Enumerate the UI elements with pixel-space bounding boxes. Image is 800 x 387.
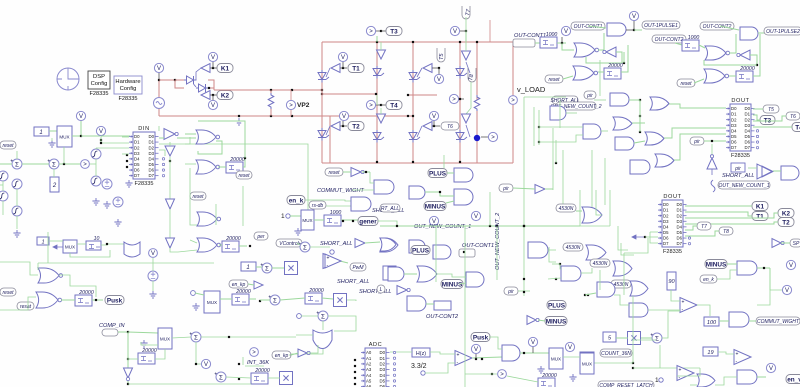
thyristor T2 bbox=[318, 128, 329, 141]
wire bbox=[753, 116, 786, 121]
wire bbox=[757, 267, 770, 269]
monostable 20000 L bbox=[138, 348, 157, 364]
MUX M2 bbox=[549, 348, 563, 369]
wire bbox=[634, 29, 642, 31]
wire bbox=[433, 121, 435, 126]
wire bbox=[210, 94, 217, 96]
svg-text:PwM: PwM bbox=[352, 265, 364, 271]
comparator K4 bbox=[677, 366, 694, 381]
wire bbox=[128, 383, 160, 385]
tag SHORT_ALL J bbox=[380, 204, 400, 212]
wire bbox=[633, 367, 700, 369]
net NOR H5 in bbox=[0, 262, 38, 275]
wire bbox=[727, 263, 737, 265]
wire bbox=[753, 126, 792, 128]
AND gate N3 bbox=[466, 272, 484, 287]
node bbox=[100, 139, 102, 141]
label frame T5 bbox=[437, 48, 445, 62]
svg-text:OUT-CONT2: OUT-CONT2 bbox=[655, 37, 684, 43]
left edge wire1 bbox=[0, 163, 12, 165]
wire bbox=[465, 42, 467, 51]
wire bbox=[753, 34, 760, 76]
wire bbox=[538, 320, 545, 321]
voltage probe T2 bbox=[339, 111, 348, 120]
node bbox=[463, 251, 465, 253]
svg-text:F28335: F28335 bbox=[663, 249, 682, 255]
svg-text:Σ: Σ bbox=[655, 335, 659, 342]
const circle I bbox=[286, 214, 290, 218]
wire bbox=[226, 377, 251, 378]
OR gate K1 bbox=[613, 261, 632, 276]
node bbox=[711, 140, 713, 142]
long wire M4 out bbox=[201, 336, 296, 338]
node bbox=[127, 383, 129, 385]
multiplier M2 bbox=[334, 294, 347, 307]
thyristor T4 bbox=[373, 130, 384, 143]
wire bbox=[159, 150, 165, 156]
node bbox=[352, 220, 354, 222]
clock block bbox=[57, 68, 79, 90]
svg-text:MINUS: MINUS bbox=[706, 261, 727, 268]
svg-text:+: + bbox=[682, 300, 685, 306]
ground G3 bbox=[103, 201, 110, 208]
svg-text:3.3/2: 3.3/2 bbox=[411, 363, 427, 370]
wire bbox=[675, 43, 682, 45]
node bbox=[212, 67, 214, 69]
wire bbox=[664, 128, 726, 138]
wire bbox=[158, 73, 160, 80]
wire bbox=[51, 138, 53, 141]
node bbox=[375, 93, 377, 95]
wire bbox=[552, 263, 560, 265]
MUX L bbox=[158, 328, 172, 349]
voltage probe shaper1 bbox=[561, 26, 570, 35]
svg-text:SHORT_ALL: SHORT_ALL bbox=[722, 173, 755, 179]
wire bbox=[717, 270, 737, 279]
svg-text:D3: D3 bbox=[745, 123, 751, 128]
wire bbox=[633, 339, 656, 341]
wire bbox=[289, 354, 291, 356]
wire bbox=[559, 100, 561, 128]
wire bbox=[340, 125, 347, 127]
node bbox=[763, 267, 765, 269]
NOR gate H3 bbox=[197, 212, 221, 226]
node bbox=[259, 300, 261, 302]
net label INT_36K tick bbox=[243, 357, 264, 366]
svg-text:20000: 20000 bbox=[229, 157, 245, 163]
node bbox=[412, 41, 414, 43]
svg-text:1: 1 bbox=[246, 265, 249, 271]
NOR gate shaper2a bbox=[705, 46, 730, 60]
node bbox=[354, 383, 356, 385]
node bbox=[354, 359, 356, 361]
node bbox=[380, 30, 382, 32]
node bbox=[80, 135, 82, 137]
wire bbox=[685, 231, 719, 236]
chip ADC bbox=[361, 342, 390, 387]
tag OUT-1PULSE1 bbox=[642, 21, 680, 29]
node bbox=[476, 137, 478, 139]
svg-text:A5: A5 bbox=[366, 379, 372, 384]
wire bbox=[195, 293, 204, 295]
node bbox=[433, 125, 435, 127]
svg-text:>: > bbox=[252, 350, 256, 356]
svg-text:Config: Config bbox=[91, 81, 108, 87]
wire bbox=[489, 192, 491, 226]
node bbox=[459, 41, 461, 43]
svg-text:Σ: Σ bbox=[52, 161, 56, 168]
wire bbox=[260, 299, 270, 301]
wire E0 to ANDb bbox=[539, 126, 583, 128]
voltage probe K3 bbox=[766, 363, 775, 372]
node bbox=[396, 225, 398, 227]
wire DOUT2 D5 D7 bbox=[650, 232, 658, 243]
svg-text:K2: K2 bbox=[221, 92, 230, 99]
svg-text:4530N: 4530N bbox=[566, 245, 581, 251]
svg-text:V: V bbox=[632, 14, 636, 20]
svg-text:D5: D5 bbox=[134, 162, 140, 167]
rect J OUT-CONT1 bbox=[459, 249, 475, 257]
wire bbox=[435, 226, 437, 282]
wire bbox=[90, 163, 96, 165]
voltage probe J1 bbox=[471, 211, 480, 220]
inverter SP bbox=[772, 239, 784, 248]
svg-text:reset: reset bbox=[2, 290, 14, 296]
probe T4 bbox=[366, 100, 375, 109]
node bbox=[376, 161, 378, 163]
wire bbox=[175, 79, 184, 81]
wire bbox=[301, 315, 318, 317]
svg-text:COUNT_36N: COUNT_36N bbox=[601, 351, 631, 357]
wire bbox=[152, 281, 154, 291]
svg-text:1000: 1000 bbox=[688, 35, 700, 41]
ground on power rail bbox=[235, 118, 242, 125]
net COMP_IN down bbox=[127, 332, 129, 384]
svg-text:V: V bbox=[432, 114, 436, 120]
AND gate E8 bbox=[781, 166, 799, 180]
svg-text:PLUS: PLUS bbox=[548, 302, 566, 309]
wire bbox=[290, 90, 292, 100]
AND gate K5 bbox=[729, 312, 749, 327]
svg-text:Hardware: Hardware bbox=[115, 79, 140, 85]
wire bbox=[376, 95, 378, 105]
tag PLUS J1 bbox=[428, 169, 447, 178]
wire bbox=[677, 368, 700, 376]
tag MINUS K bbox=[705, 260, 727, 269]
svg-text:pir: pir bbox=[734, 166, 741, 172]
node bbox=[270, 115, 272, 117]
wire bbox=[639, 100, 641, 132]
wire bbox=[496, 226, 498, 280]
voltage probe J2 bbox=[429, 216, 438, 225]
gate net T3 bbox=[376, 36, 378, 42]
wire bbox=[715, 377, 737, 385]
wire bbox=[690, 384, 697, 386]
svg-text:2: 2 bbox=[52, 183, 57, 189]
wire bbox=[381, 104, 386, 106]
tag COUNT_36N bbox=[600, 349, 632, 357]
wire bbox=[621, 45, 628, 72]
node bbox=[523, 278, 525, 280]
OR gate E3 bbox=[613, 117, 632, 130]
wire Pusk to AND bbox=[489, 337, 502, 349]
wire reset buf to AND I1 bbox=[370, 172, 374, 183]
wire bbox=[190, 168, 197, 225]
net to NOR1 bbox=[562, 43, 574, 50]
wire bbox=[481, 136, 488, 138]
NOR gate H6 bbox=[36, 292, 62, 308]
const box 5 bbox=[603, 332, 616, 342]
wire bbox=[465, 31, 467, 42]
svg-text:D0: D0 bbox=[731, 106, 737, 111]
wire bbox=[376, 30, 382, 32]
wire bbox=[47, 232, 49, 263]
wire bbox=[560, 264, 561, 269]
wire bbox=[380, 42, 382, 50]
const box 90 bbox=[667, 272, 676, 290]
wire bbox=[215, 204, 217, 225]
tag MINUS N2 bbox=[545, 317, 567, 326]
node bbox=[174, 79, 176, 81]
svg-text:reset: reset bbox=[2, 143, 14, 149]
OR gate J9 bbox=[586, 245, 606, 260]
node bbox=[412, 115, 414, 117]
probe v_LOAD bbox=[509, 96, 518, 105]
wire bbox=[580, 225, 610, 227]
tag pir E2 bbox=[731, 163, 745, 172]
svg-text:>: > bbox=[500, 372, 504, 378]
wire bbox=[650, 231, 658, 233]
wire bbox=[307, 345, 318, 353]
svg-text:MINUS: MINUS bbox=[546, 318, 567, 325]
wire bbox=[753, 108, 763, 110]
AND E0a out bbox=[566, 112, 577, 114]
tag T5 out bbox=[763, 105, 779, 113]
gate buffer T3 bbox=[377, 50, 386, 59]
AND gate J8 bbox=[528, 242, 548, 258]
label T1 bbox=[348, 64, 364, 73]
svg-text:D6: D6 bbox=[134, 168, 140, 173]
svg-text:D3: D3 bbox=[134, 151, 140, 156]
wire bbox=[212, 62, 214, 68]
node bbox=[555, 278, 557, 280]
wire bbox=[155, 349, 165, 359]
node bbox=[559, 263, 561, 265]
wire opamp out bbox=[472, 357, 502, 358]
node bbox=[639, 131, 641, 133]
wire bbox=[347, 300, 356, 301]
DC source G1 bbox=[102, 179, 112, 189]
voltage probe T5 bbox=[434, 74, 443, 83]
wire bbox=[381, 30, 386, 32]
wire bbox=[674, 134, 726, 160]
wire bbox=[61, 299, 75, 301]
svg-text:20000: 20000 bbox=[739, 66, 755, 72]
wire bbox=[291, 353, 298, 355]
wire bbox=[208, 87, 214, 89]
tag en_k K bbox=[700, 275, 717, 283]
buffer I2 bbox=[355, 239, 365, 248]
tag MINUS N bbox=[441, 280, 463, 289]
wire bbox=[629, 99, 640, 101]
AND gate shaper1 bbox=[607, 23, 626, 36]
wire bbox=[513, 188, 535, 189]
buffer J bbox=[535, 185, 545, 194]
const box 1 M bbox=[241, 262, 256, 271]
comparator G bbox=[81, 160, 90, 169]
inverter L down bbox=[124, 368, 133, 378]
tag Pusk H bbox=[105, 296, 124, 305]
vert 556 bbox=[555, 140, 557, 163]
wire T7 tag down bbox=[465, 17, 467, 31]
svg-text:D2: D2 bbox=[149, 145, 155, 150]
tag gener bbox=[358, 217, 378, 226]
AND gate I2 bbox=[351, 197, 371, 211]
wire bbox=[290, 110, 292, 116]
label T6 bbox=[441, 122, 459, 130]
node bbox=[212, 94, 214, 96]
voltage probe K right2 bbox=[782, 285, 791, 294]
thyristor T6 bbox=[409, 130, 420, 143]
ground MUX G bbox=[48, 140, 55, 147]
wire 10ff out bbox=[101, 244, 124, 245]
NOR gate H5 bbox=[38, 268, 63, 283]
tag T1 out bbox=[752, 212, 768, 221]
const circle K bbox=[659, 378, 663, 382]
svg-text:MUX: MUX bbox=[65, 245, 75, 250]
voltage probe T6 bbox=[429, 111, 438, 120]
OR gate J5 bbox=[380, 238, 396, 251]
inverter N bbox=[397, 286, 410, 295]
svg-text:D4: D4 bbox=[663, 224, 669, 229]
DIN D2 in bbox=[96, 147, 129, 149]
wire bbox=[92, 299, 103, 301]
svg-text:Σ: Σ bbox=[273, 297, 277, 304]
monostable 10 H bbox=[86, 236, 101, 250]
wire bbox=[460, 30, 466, 32]
wire bbox=[343, 171, 351, 173]
svg-text:D0: D0 bbox=[677, 202, 683, 207]
wire bbox=[720, 26, 739, 30]
gate net T7 bbox=[465, 31, 467, 42]
svg-text:D1: D1 bbox=[663, 208, 669, 213]
wire bbox=[548, 278, 561, 279]
tag T4 out bbox=[792, 123, 800, 132]
OR gate N2 bbox=[417, 266, 437, 282]
voltage probe K1 bbox=[208, 52, 217, 61]
svg-text:T5: T5 bbox=[768, 107, 774, 113]
svg-text:D1: D1 bbox=[134, 140, 140, 145]
wire bbox=[465, 373, 497, 375]
node bbox=[407, 115, 409, 117]
wire bbox=[340, 67, 347, 69]
wire bbox=[342, 121, 344, 126]
wire bbox=[175, 80, 184, 88]
svg-text:D5: D5 bbox=[149, 162, 155, 167]
svg-text:D7: D7 bbox=[731, 145, 737, 150]
wire bbox=[633, 21, 635, 30]
long net DIN D1 to MUX I bbox=[159, 144, 308, 210]
svg-text:1000: 1000 bbox=[330, 210, 342, 216]
gate buffer T7 bbox=[462, 51, 471, 60]
svg-text:Σ: Σ bbox=[219, 374, 223, 381]
wire bbox=[159, 79, 175, 81]
tag 4530N J2 bbox=[563, 243, 583, 251]
node bbox=[523, 352, 525, 354]
AND gate E6 bbox=[630, 160, 650, 174]
svg-text:Σ: Σ bbox=[265, 265, 269, 272]
svg-text:1: 1 bbox=[39, 130, 42, 136]
integrator G4 bbox=[12, 179, 22, 189]
AND gate J7 bbox=[433, 245, 451, 259]
svg-text:V: V bbox=[211, 55, 215, 61]
node bbox=[342, 220, 344, 222]
buffer M2 bbox=[298, 349, 310, 357]
node bbox=[244, 157, 246, 159]
AND E0b out bbox=[601, 130, 608, 132]
wire bbox=[53, 169, 55, 177]
svg-text:pir: pir bbox=[502, 186, 509, 192]
voltage probe G2 bbox=[96, 126, 105, 135]
wire bbox=[2, 181, 4, 191]
NOR H5 out net bbox=[59, 275, 96, 297]
thyristor T3 bbox=[373, 66, 384, 79]
svg-text:D0: D0 bbox=[380, 350, 386, 355]
svg-text:D0: D0 bbox=[745, 106, 751, 111]
svg-text:V: V bbox=[453, 29, 457, 35]
MUX G bbox=[57, 126, 72, 147]
svg-text:+: + bbox=[457, 353, 460, 359]
node bbox=[228, 336, 230, 338]
wire bbox=[365, 242, 380, 243]
svg-text:D6: D6 bbox=[149, 168, 155, 173]
ground M3 bbox=[569, 374, 576, 381]
svg-text:D5: D5 bbox=[677, 230, 683, 235]
node bbox=[291, 89, 293, 91]
bottom bus bbox=[160, 383, 251, 385]
svg-text:V: V bbox=[157, 66, 161, 72]
svg-text:SHORT_ALL: SHORT_ALL bbox=[320, 241, 353, 247]
svg-text:en_v: en_v bbox=[787, 376, 800, 383]
svg-text:F28335: F28335 bbox=[90, 91, 109, 97]
AND gate J1 bbox=[454, 168, 473, 182]
node bbox=[270, 89, 272, 91]
vert 563 bbox=[562, 150, 564, 209]
wire bbox=[757, 268, 770, 305]
svg-text:OUT-CONT1: OUT-CONT1 bbox=[462, 243, 494, 249]
tag en_k bbox=[287, 196, 305, 205]
voltage probe OUT-1PULSE1 bbox=[629, 11, 638, 20]
wire bbox=[425, 192, 454, 196]
AND gate E1 bbox=[610, 93, 629, 106]
opamp M2 bbox=[455, 351, 472, 366]
svg-text:T5: T5 bbox=[439, 53, 445, 60]
T8 gate net bbox=[466, 82, 471, 114]
AND gate J3 bbox=[409, 186, 425, 199]
tag reset H wide bbox=[236, 171, 252, 179]
wire bbox=[757, 376, 766, 378]
AND gate K7 bbox=[737, 370, 757, 384]
wire bbox=[432, 125, 440, 127]
wire cascade step2 bbox=[621, 243, 634, 255]
gate wire K2 bbox=[201, 92, 208, 95]
label K1 bbox=[217, 64, 233, 73]
NOR gate H1 bbox=[196, 130, 220, 144]
svg-text:resat: resat bbox=[20, 304, 32, 310]
node bbox=[538, 126, 540, 128]
svg-text:reset: reset bbox=[238, 173, 250, 179]
label K2 bbox=[217, 91, 233, 100]
